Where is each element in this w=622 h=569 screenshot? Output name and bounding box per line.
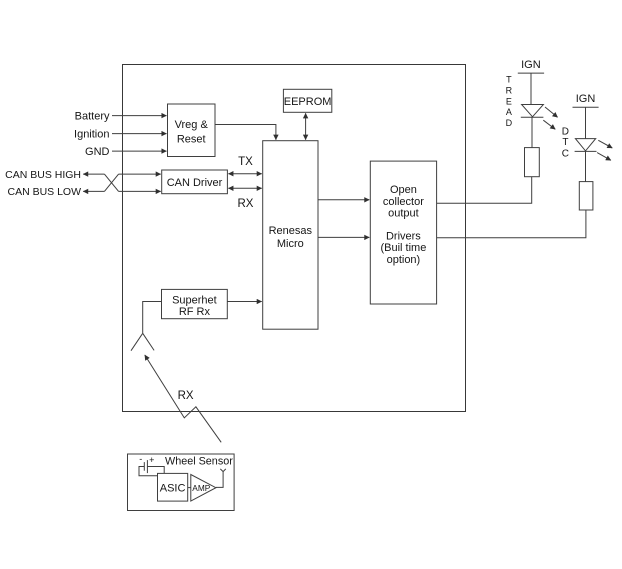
wire crossover diagonal high-to-low [104,174,118,191]
resistor R1 [525,148,540,177]
block U1: Renesas Micro [263,141,318,330]
block: ASIC [158,473,188,501]
svg-text:IGN: IGN [521,59,541,71]
wire antenna ANT1 to Superhet [143,302,162,334]
svg-text:RF Rx: RF Rx [179,306,211,318]
wire GND to Vreg [112,150,167,152]
svg-text:T: T [562,137,568,148]
svg-text:Drivers: Drivers [386,231,421,243]
wire Ignition to Vreg [112,133,167,135]
vertical label D T C [562,126,569,159]
svg-text:Vreg &: Vreg & [175,119,209,131]
RF link zigzag from Wheel Sensor to ANT1 [145,355,221,442]
svg-text:output: output [388,208,419,220]
wire into CAN Driver bottom-left [119,190,161,192]
svg-text:Micro: Micro [277,238,304,250]
wire Micro to Open collector (lower) [318,236,369,238]
svg-text:R: R [506,85,513,95]
LED D2 (DTC warning lamp) [575,139,597,152]
svg-text:EEPROM: EEPROM [284,96,332,108]
svg-text:(Buil time: (Buil time [380,242,426,254]
svg-text:GND: GND [85,146,110,158]
wire LED D2 to R2 [585,151,587,181]
svg-text:Reset: Reset [177,133,206,145]
svg-text:Renesas: Renesas [269,225,313,237]
amplifier AMP [191,475,216,502]
svg-text:D: D [506,118,513,128]
wire Micro to Open collector (upper) [318,199,369,201]
block: Wheel Sensor [128,454,235,511]
svg-text:CAN BUS LOW: CAN BUS LOW [7,186,81,198]
svg-text:Wheel Sensor: Wheel Sensor [165,455,233,467]
svg-text:CAN Driver: CAN Driver [167,177,223,189]
IGN rail bar (TREAD chain) [518,72,544,74]
LED D1 emission arrows [545,107,558,117]
wire IGN to LED D2 [585,107,587,138]
resistor R2 [579,182,593,210]
wire ASIC to AMP [188,487,191,489]
outer box: TPMS ECU boundary [123,65,466,412]
svg-text:RX: RX [238,198,254,210]
wire Vreg output to Micro top [215,125,276,140]
svg-text:CAN BUS HIGH: CAN BUS HIGH [5,169,81,181]
wire Battery to Vreg [112,115,167,117]
svg-text:C: C [562,149,569,160]
block U4: EEPROM [283,89,331,112]
wire into CAN Driver top-left [119,173,161,175]
svg-text:option): option) [387,254,421,266]
wire LED D1 to R1 [531,117,533,147]
LED D1 (TREAD warning lamp) [521,105,544,118]
svg-text:Superhet: Superhet [172,294,217,306]
svg-text:collector: collector [383,196,424,208]
wire crossover diagonal low-to-high [104,174,118,191]
svg-text:A: A [506,107,512,117]
wire battery negative to ASIC [139,467,158,476]
antenna ANT2 [220,469,226,472]
block U6: Superhet RF Rx [162,289,228,318]
wire TX (bidirectional CAN Driver - Micro) [228,173,261,175]
wire battery positive to ASIC top [147,467,164,474]
LED D2 emission arrows [598,140,612,148]
svg-text:AMP: AMP [192,483,210,493]
svg-text:TX: TX [238,156,253,168]
wire Open collector output 1 to R1 [437,177,532,204]
wire Superhet to Micro [227,301,261,303]
svg-text:Ignition: Ignition [74,129,109,141]
vertical label T R E A D [506,75,513,128]
block U5: Open collector output Drivers [370,161,436,304]
wire Open collector output 2 to R2 [437,210,586,238]
svg-text:-: - [139,454,142,464]
wire CAN BUS LOW stub with left arrowhead [83,190,104,192]
wire CAN BUS HIGH stub with left arrowhead [83,173,104,175]
svg-text:Battery: Battery [75,111,110,123]
svg-text:Open: Open [390,184,417,196]
svg-text:D: D [562,126,569,137]
block U2: Vreg & Reset [168,104,216,157]
wire EEPROM to Micro (bidirectional) [305,113,307,139]
wire RX (bidirectional CAN Driver - Micro) [228,187,261,189]
antenna ANT1 [131,333,154,350]
IGN rail bar (DTC chain) [573,106,599,108]
svg-text:ASIC: ASIC [160,483,186,495]
wire IGN to LED D1 [530,73,532,104]
battery BT1 short plate [143,462,145,471]
battery BT1 long plate [146,460,148,473]
wire AMP to antenna ANT2 [216,472,223,488]
block U3: CAN Driver [162,170,228,194]
svg-text:RX: RX [178,390,194,402]
svg-text:IGN: IGN [576,93,596,105]
svg-text:T: T [506,75,512,85]
svg-text:E: E [506,96,512,106]
svg-text:+: + [149,455,154,465]
